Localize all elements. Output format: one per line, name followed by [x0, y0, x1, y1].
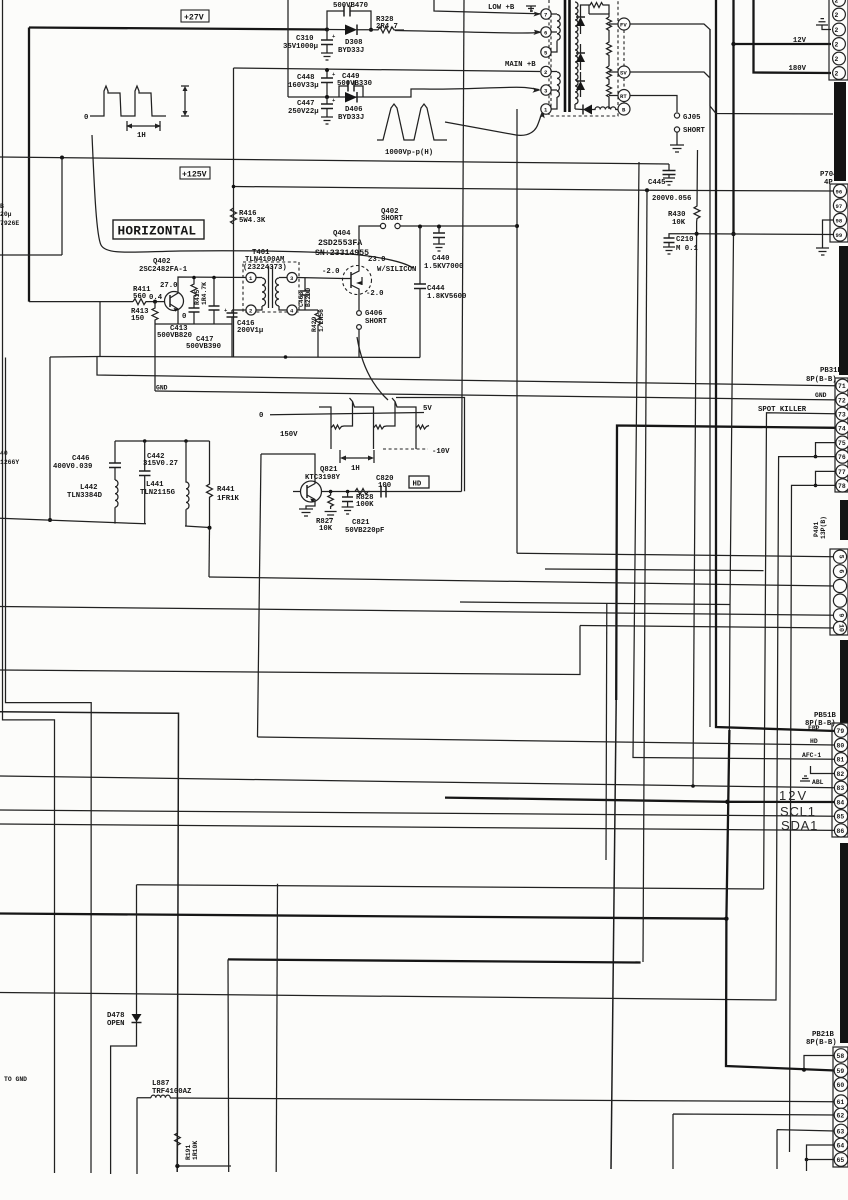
- inductor B line: [592, 107, 618, 110]
- svg-text:1FR1K: 1FR1K: [217, 495, 240, 503]
- wire rail y670: [0, 626, 580, 675]
- wire vertical x62: [61, 158, 63, 256]
- svg-text:2: 2: [835, 42, 839, 49]
- wire rail pin10 P401: [580, 626, 835, 629]
- svg-text:D308: D308: [345, 39, 363, 47]
- svg-text:2: 2: [835, 12, 839, 19]
- svg-text:GJ05: GJ05: [683, 114, 701, 122]
- svg-text:500VB330: 500VB330: [337, 80, 372, 88]
- svg-text:100K: 100K: [356, 501, 374, 509]
- capacitor C445: [663, 164, 676, 178]
- wire FV route: [630, 24, 833, 114]
- P704 pin 98: [833, 213, 846, 226]
- T401 pin1 circle: [246, 273, 256, 283]
- B circle: [618, 103, 630, 115]
- connector top-right box: [829, 0, 848, 80]
- P401 pin 7: [833, 579, 846, 592]
- wire pin4 right: [297, 309, 318, 311]
- wire rail PB21B-63: [777, 1130, 835, 1169]
- svg-text:27.0: 27.0: [160, 282, 178, 290]
- wire Q402 collector up: [178, 277, 251, 291]
- wire rail y157: [0, 157, 669, 164]
- svg-text:6: 6: [838, 569, 845, 573]
- node junction C440: [437, 225, 441, 229]
- wire vertical x277: [276, 884, 277, 1172]
- svg-text:GND: GND: [815, 392, 827, 399]
- wire FV tap: [609, 23, 618, 25]
- node junction 78: [814, 484, 818, 488]
- svg-text:Q404: Q404: [333, 230, 351, 238]
- wire thick R-net y961: [228, 959, 641, 962]
- svg-text:HD: HD: [810, 738, 818, 745]
- label box HORIZONTAL: [113, 220, 204, 239]
- PB51B pin 84: [834, 795, 847, 808]
- resistor R191: [175, 1098, 181, 1166]
- cable bar 4: [840, 640, 848, 723]
- svg-text:R430: R430: [668, 211, 686, 219]
- PB21B pin 62: [834, 1108, 848, 1122]
- wire rail A left arm: [50, 356, 100, 359]
- node junction D406 left: [325, 95, 329, 99]
- svg-text:81: 81: [837, 757, 845, 764]
- RT circle: [618, 90, 630, 102]
- node junction rail A: [284, 355, 288, 359]
- svg-text:M 0.1: M 0.1: [676, 245, 699, 253]
- capacitor C440: [433, 227, 445, 245]
- node junction C821: [346, 490, 350, 494]
- svg-text:TLN3384D: TLN3384D: [67, 492, 103, 500]
- waveform2 trace: [319, 398, 429, 449]
- svg-text:63: 63: [837, 1129, 845, 1136]
- svg-text:2: 2: [835, 27, 839, 34]
- wire D478 branch: [111, 885, 137, 1174]
- diode D406: [345, 92, 357, 103]
- cable bar 5: [840, 843, 848, 1043]
- wire HD to long vertical: [322, 491, 462, 493]
- node junction 12V x606: [725, 800, 729, 804]
- svg-text:40: 40: [0, 450, 8, 457]
- svg-text:FV: FV: [620, 22, 627, 29]
- P401 pin 5: [833, 550, 846, 563]
- flyback pin7: [541, 9, 551, 19]
- wire curve into pin3: [424, 87, 539, 89]
- wire net77-78 stub: [816, 471, 836, 485]
- svg-text:79: 79: [837, 728, 845, 735]
- svg-text:(23224373): (23224373): [243, 264, 287, 272]
- wire rail to PB31B-71: [97, 357, 835, 386]
- wire +27V rail: [29, 28, 327, 30]
- wire rail pin9 P401: [0, 607, 835, 616]
- wire Q404 collector up: [359, 226, 363, 266]
- PB21B pin 60: [834, 1078, 848, 1092]
- svg-text:SV: SV: [620, 70, 627, 77]
- focus divider resistor 1: [607, 17, 612, 33]
- flyback pin6: [541, 27, 551, 37]
- svg-text:80: 80: [837, 743, 845, 750]
- svg-text:72: 72: [838, 397, 846, 404]
- wire rail pin7 P401: [209, 577, 835, 586]
- svg-text:TLN4100AM: TLN4100AM: [245, 256, 285, 264]
- PB31B pin 71: [836, 379, 848, 392]
- ground C440: [433, 244, 445, 251]
- svg-text:Q402: Q402: [153, 258, 171, 266]
- capacitor C463: [300, 278, 310, 310]
- wire R441 bottom stub: [185, 526, 210, 528]
- wire Q821 collector up-left: [261, 454, 315, 481]
- node junction collector rail b: [212, 276, 216, 280]
- node junction R191: [175, 1164, 179, 1168]
- svg-text:98: 98: [836, 218, 843, 225]
- svg-text:1.5KV7000: 1.5KV7000: [424, 263, 463, 271]
- svg-text:75: 75: [838, 440, 846, 447]
- svg-text:7: 7: [544, 12, 547, 19]
- waveform drive pulses top-left: [90, 86, 166, 116]
- diode HV3: [576, 72, 585, 97]
- jumper G406 bottom: [357, 325, 362, 330]
- diode HV2: [576, 44, 585, 70]
- WIRES-MID: [84, 0, 835, 268]
- wire 12V net vertical thick: [732, 0, 734, 234]
- svg-text:73: 73: [838, 411, 846, 418]
- svg-text:C821: C821: [352, 519, 370, 527]
- P704 pin 97: [833, 199, 846, 212]
- svg-text:7926E: 7926E: [0, 220, 19, 227]
- PB31B pin 74: [836, 421, 848, 434]
- svg-text:1R4.7K: 1R4.7K: [201, 282, 208, 305]
- SV circle: [618, 66, 630, 78]
- resistor R415: [191, 278, 197, 301]
- svg-text:W/SILICON: W/SILICON: [377, 266, 416, 274]
- transistor Q404: [343, 266, 372, 295]
- wire ABL rail: [0, 776, 835, 788]
- svg-text:B: B: [0, 203, 4, 210]
- PB21B pin 61: [834, 1095, 848, 1109]
- svg-text:1R10K: 1R10K: [192, 1141, 199, 1160]
- svg-text:L441: L441: [146, 481, 164, 489]
- diode damper B line: [575, 105, 592, 115]
- ground GJ05: [670, 145, 684, 152]
- svg-text:1/2R56: 1/2R56: [318, 309, 325, 332]
- wire +27V feed down-left: [28, 28, 30, 302]
- svg-text:-10V: -10V: [432, 448, 450, 456]
- jumper G406 top: [357, 311, 362, 316]
- svg-text:+125V: +125V: [182, 171, 207, 180]
- svg-text:RT: RT: [620, 93, 627, 100]
- capacitor C448: [321, 70, 336, 97]
- connector top pin y0: [833, 0, 846, 6]
- wf2 baseline: [270, 413, 424, 415]
- svg-text:1H: 1H: [351, 465, 360, 473]
- PB21B pin 64: [834, 1138, 848, 1152]
- node junction 12V top: [731, 42, 735, 46]
- PB21B pin 65: [834, 1153, 848, 1167]
- wire 12V rail thick: [445, 798, 835, 802]
- svg-text:83: 83: [837, 785, 845, 792]
- node junction 58-59: [802, 1068, 806, 1072]
- svg-text:12V: 12V: [779, 788, 808, 803]
- svg-text:20µ: 20µ: [0, 211, 12, 218]
- node junction collector rail a: [192, 276, 196, 280]
- wire emitter rail y324: [155, 323, 232, 325]
- wire stub 64: [807, 1145, 836, 1160]
- P704 pin 96: [833, 184, 846, 197]
- svg-text:4P: 4P: [824, 179, 833, 187]
- svg-text:ABL: ABL: [812, 779, 824, 786]
- svg-text:SHORT: SHORT: [365, 318, 388, 326]
- svg-text:B2200: B2200: [305, 288, 312, 307]
- connector top pin y58: [833, 52, 846, 65]
- wire pin82 stub: [811, 766, 836, 774]
- svg-text:97: 97: [836, 203, 843, 210]
- jumper Q402SHORT left circle: [380, 223, 385, 228]
- T401 primary winding: [256, 278, 266, 311]
- wire +27V arrow to pin6: [395, 31, 540, 34]
- jumper GJ05 bottom circle: [674, 127, 679, 132]
- wire 12V top to connector: [734, 43, 832, 45]
- node junction C448 top: [325, 68, 329, 72]
- diode D478: [132, 1014, 142, 1023]
- node junction 200V rail x647: [645, 188, 649, 192]
- svg-text:R429: R429: [311, 316, 318, 332]
- svg-text:Q821: Q821: [320, 466, 338, 474]
- jumper GJ05 top circle: [674, 113, 679, 118]
- flyback pin3: [541, 85, 551, 95]
- capacitor C442: [139, 441, 151, 524]
- svg-text:71: 71: [838, 383, 846, 390]
- wire D406 rail: [288, 89, 424, 97]
- jumper Q402SHORT right circle: [395, 223, 400, 228]
- wire G406 to rail: [358, 329, 360, 357]
- inductor L887: [151, 1095, 170, 1098]
- svg-text:10K: 10K: [319, 525, 333, 533]
- svg-text:D406: D406: [345, 106, 363, 114]
- svg-text:86: 86: [837, 828, 845, 835]
- svg-text:SHORT: SHORT: [381, 215, 404, 223]
- resistor R413: [152, 302, 158, 324]
- ground C310: [321, 53, 333, 60]
- svg-text:C463: C463: [298, 291, 305, 307]
- svg-text:5W4.3K: 5W4.3K: [239, 217, 266, 225]
- svg-text:250V22µ: 250V22µ: [288, 108, 319, 116]
- svg-text:P401: P401: [813, 521, 820, 537]
- ground top connector: [816, 19, 828, 25]
- node junction C444: [418, 225, 422, 229]
- svg-text:59: 59: [837, 1068, 845, 1075]
- connector top pin y73: [833, 67, 846, 80]
- node junction R441 bottom: [208, 526, 212, 530]
- PB21B pin 59: [834, 1064, 848, 1078]
- cable bar 2: [839, 246, 848, 375]
- svg-text:C446: C446: [72, 455, 90, 463]
- svg-text:BYD33J: BYD33J: [338, 114, 364, 122]
- svg-text:74: 74: [838, 425, 846, 432]
- PB51B pin 82: [834, 767, 847, 780]
- flyback primary pin dashes: [550, 14, 552, 109]
- connector P704 box: [830, 184, 848, 242]
- wire 65 rail: [807, 1160, 836, 1172]
- wire Q821 collector vertical: [258, 454, 262, 737]
- focus divider resistor 2: [607, 33, 612, 66]
- pointer curve Q404 to wf2: [357, 337, 388, 400]
- svg-text:HORIZONTAL: HORIZONTAL: [118, 224, 197, 239]
- svg-text:13P(B): 13P(B): [820, 516, 827, 539]
- wire rail y255 stub: [0, 254, 62, 256]
- capacitor C820: [381, 486, 386, 498]
- wire net76 rail: [0, 457, 835, 1000]
- svg-text:2R4.7: 2R4.7: [376, 23, 398, 31]
- capacitor C449 loop: [339, 86, 363, 97]
- svg-text:L887: L887: [152, 1080, 170, 1088]
- svg-text:TRF4100AZ: TRF4100AZ: [152, 1088, 192, 1096]
- svg-text:100: 100: [378, 482, 391, 490]
- resistor R827: [328, 492, 334, 510]
- wire long vertical x462: [462, 0, 465, 492]
- svg-text:23.0: 23.0: [368, 256, 386, 264]
- connector top pin y29: [833, 23, 846, 36]
- connector P401 box: [830, 549, 848, 635]
- svg-text:SDA1: SDA1: [781, 818, 818, 833]
- wire SCL1 rail: [0, 810, 835, 816]
- svg-text:2: 2: [835, 0, 839, 5]
- resistor R828: [355, 489, 370, 495]
- wire L-cluster top rail: [115, 440, 210, 442]
- svg-text:FBP: FBP: [808, 725, 820, 732]
- arrowhead into pin6: [533, 30, 542, 35]
- svg-text:PB31B: PB31B: [820, 367, 843, 375]
- resistor HV top horizontal: [589, 3, 609, 15]
- wire vertical x229: [227, 959, 230, 1172]
- capacitor C416: [224, 307, 238, 357]
- svg-text:C210: C210: [676, 236, 694, 244]
- capacitor C821: [342, 492, 353, 508]
- resistor R328: [371, 27, 404, 33]
- svg-text:5: 5: [838, 555, 845, 559]
- T401 pin2 circle: [246, 305, 256, 315]
- wire net78 rail: [790, 485, 836, 1152]
- wire vertical x728 to 59: [729, 234, 733, 730]
- ground C445: [663, 178, 675, 185]
- capacitor C417: [209, 278, 220, 325]
- svg-text:R441: R441: [217, 486, 235, 494]
- svg-text:77: 77: [838, 469, 846, 476]
- resistor R430: [694, 150, 700, 234]
- svg-text:150: 150: [131, 315, 144, 323]
- label box +27V: [181, 10, 209, 23]
- transistor Q821: [301, 481, 322, 503]
- wire HV top to divider: [581, 5, 610, 17]
- svg-text:64: 64: [837, 1143, 845, 1150]
- svg-text:180V: 180V: [788, 65, 806, 73]
- node junction 59 net: [724, 917, 728, 921]
- svg-text:SPOT KILLER: SPOT KILLER: [758, 406, 807, 414]
- capacitor C447 electrolytic: [321, 97, 336, 117]
- wire base rail: [29, 301, 164, 303]
- transistor Q402: [165, 291, 184, 312]
- measure arrow 1H wf2: [340, 450, 374, 463]
- flyback primary winding upper: [551, 14, 560, 52]
- wire emitter rail A: [100, 357, 420, 358]
- svg-text:+27V: +27V: [184, 14, 204, 23]
- PB31B pin 73: [836, 407, 848, 420]
- svg-text:TO GND: TO GND: [4, 1076, 27, 1083]
- capacitor 500VB470 plates: [344, 6, 350, 17]
- flyback primary winding lower: [551, 72, 560, 110]
- ground C821: [342, 507, 354, 514]
- connector PB21B box: [833, 1047, 848, 1167]
- wire RT route to GJ05: [630, 96, 677, 113]
- label box HD: [409, 476, 429, 489]
- svg-text:SN:23314955: SN:23314955: [315, 249, 369, 258]
- svg-text:PB51B: PB51B: [814, 712, 837, 720]
- svg-text:400V0.039: 400V0.039: [53, 463, 92, 471]
- svg-text:C445: C445: [648, 179, 666, 187]
- wire rail 200V to P704-96: [234, 187, 836, 192]
- svg-text:50VB220pF: 50VB220pF: [345, 527, 384, 535]
- wire MAIN+B box vertical x233: [233, 68, 235, 357]
- wire page-left vertical A: [3, 0, 55, 1173]
- svg-text:G406: G406: [365, 310, 383, 318]
- flyback pin5: [541, 47, 551, 57]
- node junction R827: [329, 490, 333, 494]
- focus divider resistor 4: [607, 82, 612, 109]
- T401 pin3 circle: [287, 273, 297, 283]
- wire SDA1 rail: [0, 824, 835, 830]
- PB21B pin 58: [834, 1049, 848, 1063]
- svg-text:84: 84: [837, 800, 845, 807]
- flyback pin1: [541, 104, 551, 114]
- svg-text:200V1µ: 200V1µ: [237, 327, 263, 335]
- capacitor C446: [109, 441, 121, 480]
- flyback pin2: [541, 66, 551, 76]
- connector PB51B box: [832, 723, 848, 837]
- arrowhead into pin3: [532, 88, 541, 93]
- svg-text:-2.0: -2.0: [366, 290, 384, 298]
- focus divider resistor 3: [607, 66, 612, 82]
- wire GND rail to PB31B-72: [155, 391, 835, 400]
- wire R441 drop: [208, 528, 211, 577]
- wire L887 left drop: [136, 1098, 138, 1174]
- svg-text:0: 0: [259, 412, 263, 420]
- capacitor C210: [664, 234, 697, 247]
- svg-text:1.8KV5600: 1.8KV5600: [427, 293, 466, 301]
- svg-text:8P(B-B): 8P(B-B): [806, 1039, 837, 1047]
- P401 pin 8: [833, 594, 846, 607]
- svg-text:99: 99: [836, 232, 843, 239]
- wire MAIN+B rail to pin2: [234, 68, 541, 72]
- PB51B pin 83: [834, 781, 847, 794]
- dashed link FV-SV-RT: [623, 30, 625, 103]
- resistor R441: [207, 441, 213, 528]
- PB51B pin 79: [834, 724, 847, 737]
- wire rail PB21B-62: [673, 1114, 835, 1169]
- svg-text:GND: GND: [156, 385, 168, 392]
- svg-text:L442: L442: [80, 484, 98, 492]
- ground R827: [325, 512, 337, 519]
- svg-text:9: 9: [838, 613, 845, 617]
- capacitor C310 electrolytic: [321, 30, 336, 54]
- wire rail P704-99: [697, 233, 835, 236]
- resistor R416 5W4.3K on x233: [231, 208, 237, 224]
- waveform2 box 150V: [259, 337, 465, 491]
- T401 core lines: [269, 266, 273, 308]
- node junction 76: [814, 455, 818, 459]
- wire vertical x693: [693, 234, 697, 786]
- PB31B pin 72: [836, 393, 848, 406]
- ground C210: [663, 247, 675, 254]
- connector top pin y44: [833, 38, 846, 51]
- svg-text:160V33µ: 160V33µ: [288, 82, 319, 90]
- PB21B pin 63: [834, 1124, 848, 1138]
